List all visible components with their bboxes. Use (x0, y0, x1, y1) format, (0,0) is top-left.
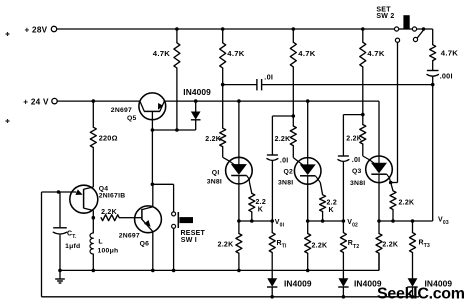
SCS Q1 3N81 (226, 157, 253, 184)
wire Q6 collector up (152, 184, 154, 206)
svg-text:2.2K: 2.2K (218, 242, 234, 249)
svg-text:2.2K: 2.2K (382, 241, 398, 248)
svg-text:2N697: 2N697 (111, 107, 132, 114)
svg-text:4.7K: 4.7K (441, 48, 458, 57)
svg-text:2.2K: 2.2K (101, 209, 117, 216)
svg-text:SeekIC.com: SeekIC.com (377, 286, 465, 303)
resistor 2.2K gate Q1 (249, 193, 255, 211)
wire V03 column (432, 85, 434, 221)
svg-text:Q3: Q3 (352, 168, 362, 175)
svg-text:3N8I: 3N8I (278, 180, 293, 187)
resistor 2.2K cathode Q3 (378, 221, 380, 234)
resistor 4.7K #1 (176, 29, 178, 43)
svg-text:RESET: RESET (181, 230, 206, 237)
wire +28V top rail (57, 28, 395, 30)
SCS Q3 3N81 (366, 156, 393, 183)
capacitor C_T 1ufd (59, 192, 61, 228)
switch SW1 (RESET) (172, 212, 176, 216)
gate lead Q3 (387, 174, 390, 178)
junction dots on +28V rail (175, 27, 179, 31)
ground symbol (59, 270, 61, 278)
svg-text:K: K (258, 206, 263, 213)
resistor 2.2K anode-gate Q1 (220, 128, 226, 146)
svg-text:100μh: 100μh (98, 247, 119, 254)
wire Q5 base column (151, 120, 153, 185)
svg-text:Q2: Q2 (284, 169, 294, 176)
svg-text:IN4009: IN4009 (183, 87, 211, 97)
wire Q3 cathode down (378, 183, 380, 221)
capacitor .01 #1 (horizontal) (256, 79, 258, 90)
node junction .001/.01 line (431, 83, 435, 87)
node +24V terminal (52, 98, 57, 103)
transistor Q4 (2N1671B unijunction) (70, 185, 98, 213)
svg-text:2.2K: 2.2K (399, 199, 415, 206)
wire +24V rail (57, 100, 140, 102)
resistor 220 ohm (92, 101, 94, 127)
svg-text:220Ω: 220Ω (99, 133, 118, 142)
SCS Q2 3N81 (294, 158, 321, 185)
svg-text:SW I: SW I (181, 237, 197, 244)
paper specks (6, 32, 10, 36)
svg-text:4.7K: 4.7K (227, 49, 244, 58)
resistor 2.2K gate Q3 (390, 191, 396, 210)
svg-text:Q5: Q5 (127, 115, 137, 122)
diode IN4009 (top) (195, 101, 197, 112)
wire Q4 emitter line (42, 191, 77, 193)
.01 coupling stage3 (361, 113, 365, 117)
svg-text:4.7K: 4.7K (367, 49, 384, 58)
output wires V01 V02 V03 (239, 220, 272, 222)
wire Q2 cathode down (307, 184, 309, 221)
gate junction dot Q3/SW2 (389, 181, 393, 185)
svg-text:2.2K: 2.2K (312, 243, 328, 250)
svg-text:.00I: .00I (440, 72, 453, 81)
node Q4 B1 junction (92, 216, 96, 220)
svg-text:4.7K: 4.7K (153, 49, 170, 58)
ground rail A (60, 269, 379, 271)
svg-text:Q4: Q4 (99, 185, 109, 192)
svg-text:K: K (329, 207, 334, 214)
wire SW2 to 4.7K #5 (417, 28, 433, 30)
resistor 2.2K anode-gate Q3 (360, 125, 366, 145)
svg-text:3N8I: 3N8I (207, 179, 222, 186)
resistor 2.2K gate Q2 (320, 195, 326, 212)
capacitor .001 (427, 70, 439, 72)
wire Q1 cathode down (238, 184, 240, 221)
SW2 button (399, 28, 413, 30)
svg-text:3N8I: 3N8I (350, 180, 365, 187)
svg-text:.0I: .0I (352, 157, 361, 164)
svg-text:.0I: .0I (264, 72, 273, 81)
svg-text:QI: QI (212, 169, 220, 176)
inductor L 100uh (92, 218, 94, 233)
svg-text:SW 2: SW 2 (376, 13, 394, 20)
resistor 4.7K #4 (362, 29, 364, 42)
node +28V terminal (51, 26, 56, 31)
gate lead Q2 (315, 176, 318, 180)
transistor Q5 (2N697) (139, 93, 166, 120)
svg-text:2.2K: 2.2K (205, 136, 221, 143)
transistor Q6 (2N697) (135, 206, 162, 233)
svg-text:2NI67IB: 2NI67IB (99, 192, 126, 199)
wire .01 coupling line (V03 to stage 1) (223, 84, 257, 86)
wire left boundary (41, 192, 43, 297)
wire Q6 emitter down (152, 232, 154, 271)
svg-text:2N697: 2N697 (119, 233, 140, 240)
wire Q5 base line (152, 129, 195, 131)
wire RESET branch (152, 183, 173, 185)
resistor 2.2K cathode Q1 (238, 221, 240, 234)
svg-text:.0I: .0I (280, 157, 289, 164)
resistor 2.2K anode-gate Q2 (290, 126, 296, 146)
svg-text:2.2K: 2.2K (346, 136, 362, 143)
resistor 4.7K #3 (292, 29, 294, 42)
svg-text:Q6: Q6 (140, 240, 150, 247)
svg-text:4.7K: 4.7K (298, 49, 315, 58)
wire SW2 lower-left pole down to Q3 gate (397, 42, 399, 182)
wire Q2 anode from +24V rail (307, 101, 309, 158)
resistor 4.7K #5 (432, 29, 434, 45)
svg-text:L: L (98, 239, 102, 246)
svg-text:2.2: 2.2 (327, 200, 337, 207)
.01 coupling stage2 (292, 114, 296, 118)
svg-text:1μfd: 1μfd (65, 243, 80, 250)
gate lead Q1 (247, 176, 250, 180)
svg-text:+ 24 V: + 24 V (23, 97, 49, 106)
resistors R_T1 R_T2 R_T3 and bottom diodes (271, 221, 273, 233)
resistor 4.7K #2 (222, 29, 224, 43)
junction dots on +24V rail (92, 99, 96, 103)
resistor 2.2K (Q4 to Q6 base) (101, 215, 119, 221)
svg-text:IN4009: IN4009 (284, 278, 312, 288)
bottom rail B (42, 296, 420, 298)
resistor 2.2K cathode Q2 (307, 221, 309, 234)
wire Q1 anode from +24V rail (238, 101, 240, 157)
svg-text:2.2: 2.2 (256, 199, 266, 206)
wire Q5 emitter rail to Q3 anode (164, 100, 379, 102)
svg-text:2.2K: 2.2K (275, 136, 291, 143)
svg-text:+ 28V: + 28V (25, 25, 48, 34)
